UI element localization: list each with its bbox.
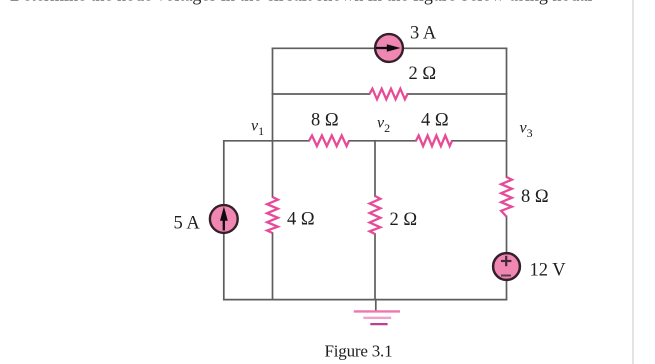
ground bar 2 (363, 317, 391, 319)
resistor 2ohm vertical (370, 196, 381, 234)
svg-text:4 Ω: 4 Ω (287, 210, 315, 230)
svg-text:v3: v3 (520, 120, 533, 141)
wire right vertical lower (506, 217, 508, 300)
ground bar 3 (370, 323, 387, 325)
svg-text:12 V: 12 V (530, 261, 567, 281)
svg-text:v2: v2 (377, 115, 390, 136)
svg-text:8 Ω: 8 Ω (311, 111, 339, 131)
voltage source 12V (493, 253, 520, 280)
svg-text:4 Ω: 4 Ω (421, 111, 449, 131)
wire second horizontal right segment (408, 93, 507, 95)
ground stem (375, 300, 377, 311)
svg-text:2 Ω: 2 Ω (390, 210, 418, 230)
resistor 8ohm vertical right (501, 177, 512, 217)
wire middle horizontal segment 1 (224, 140, 309, 142)
svg-text:3 A: 3 A (410, 24, 437, 44)
resistor 8ohm horizontal (309, 136, 349, 147)
wire top horizontal (273, 47, 507, 49)
resistor 2ohm horizontal (370, 89, 408, 100)
wire vertical at v2 branch upper (374, 141, 376, 196)
resistor 4ohm vertical (267, 197, 278, 233)
wire vertical at v2 branch lower (374, 234, 376, 300)
svg-text:8 Ω: 8 Ω (521, 187, 549, 207)
svg-text:2 Ω: 2 Ω (409, 64, 437, 84)
wire middle horizontal segment 3 (452, 140, 507, 142)
resistor 4ohm horizontal (416, 136, 452, 147)
current source 5A (210, 205, 238, 233)
svg-text:Figure 3.1: Figure 3.1 (325, 342, 393, 361)
wire vertical at v1 branch lower (272, 233, 274, 300)
wire second horizontal left segment (273, 93, 370, 95)
svg-text:v1: v1 (251, 118, 264, 139)
wire vertical at v1 branch upper (272, 48, 274, 197)
svg-text:5 A: 5 A (174, 214, 201, 234)
wire middle horizontal segment 2 (349, 140, 416, 142)
current source 3A (375, 34, 403, 62)
wire left vertical (223, 141, 225, 300)
page edge vertical line (632, 0, 634, 364)
wire bottom horizontal (224, 299, 507, 301)
ground bar 1 (354, 310, 400, 312)
svg-text:Determine the node voltages in: Determine the node voltages in the circu… (10, 0, 592, 5)
wire right vertical upper (506, 48, 508, 177)
